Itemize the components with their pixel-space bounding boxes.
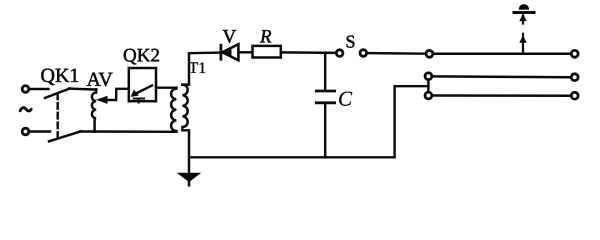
switch QK1 bottom blade [49, 131, 81, 141]
switch S left contact [336, 50, 343, 57]
capacitor C bottom lead [324, 104, 326, 157]
bottom rail wire (QK1 to T1 primary bottom) [80, 130, 176, 133]
terminal B1 (left, row 1) [426, 50, 433, 57]
wire row 2 [432, 75, 571, 78]
terminal A2 (bottom AC input) [22, 128, 29, 135]
wire QK2 to T1 primary top [156, 86, 176, 88]
arrester upper arrowhead [520, 15, 526, 21]
diode V filled tip [222, 48, 231, 57]
wire AV tap to QK2 [106, 89, 129, 100]
diode V triangle (hollow body) [222, 44, 238, 60]
breaker QK2 box [129, 68, 156, 101]
QK2 blade arrowhead [132, 91, 138, 97]
terminal B2 (left, row 2) [425, 73, 432, 80]
capacitor C top plate [316, 90, 334, 93]
capacitor C bottom plate [316, 101, 334, 104]
svg-text:QK2: QK2 [123, 45, 160, 66]
QK1 mechanical dashed link [56, 94, 58, 138]
QK2 trip tee mark [134, 99, 144, 103]
ground symbol [179, 173, 199, 181]
arrester lower arrowhead [520, 36, 526, 42]
diode V cathode bar [219, 45, 222, 59]
wire QK1 top blade to AV top [69, 89, 96, 90]
bottom rail 2 (ground bus) [189, 156, 395, 158]
autotransformer AV winding [92, 89, 96, 132]
text labels group [40, 26, 355, 110]
wire row 3 [432, 94, 571, 97]
wire diode to resistor [240, 51, 253, 53]
svg-text:T1: T1 [189, 60, 207, 77]
arrester dome cap [520, 5, 529, 9]
terminal C2 (right, row 2) [571, 74, 578, 81]
arrester plate bar [514, 11, 534, 14]
transformer T1 secondary winding [182, 85, 187, 131]
transformer T1 primary winding [171, 88, 176, 132]
arrester upper stem [522, 16, 524, 24]
wire S to terminal B1 [367, 52, 426, 55]
svg-text:C: C [338, 87, 353, 111]
svg-text:QK1: QK1 [41, 65, 80, 87]
label ~ (AC source) [20, 108, 31, 111]
terminal C1 (right, row 1) [571, 50, 578, 57]
QK2 blade [133, 86, 152, 95]
AV tap arrow [97, 96, 107, 103]
capacitor C top lead [324, 53, 326, 90]
riser wire to output pair [395, 86, 429, 157]
terminal A1 (top AC input) [22, 86, 29, 93]
switch QK1 top blade [45, 88, 70, 98]
wire T1 secondary bottom to ground [182, 130, 189, 172]
terminal C3 (right, row 3) [571, 92, 578, 99]
resistor R box [253, 46, 281, 58]
wire A2 to QK1 bottom contact [29, 130, 50, 132]
svg-text:AV: AV [87, 69, 114, 91]
terminal B3 (left, row 3) [425, 92, 432, 99]
svg-text:S: S [346, 32, 356, 52]
switch S right contact [360, 50, 367, 57]
wire row 1 [433, 53, 571, 56]
svg-text:V: V [223, 26, 237, 47]
wire resistor to switch S [281, 51, 336, 54]
wire T1 secondary top to top rail [182, 53, 220, 85]
wire A1 to QK1 top contact [29, 88, 48, 90]
arrester lower stem [522, 34, 524, 53]
svg-text:R: R [259, 26, 272, 47]
link wire between terminal B2 and B3 [427, 80, 429, 93]
